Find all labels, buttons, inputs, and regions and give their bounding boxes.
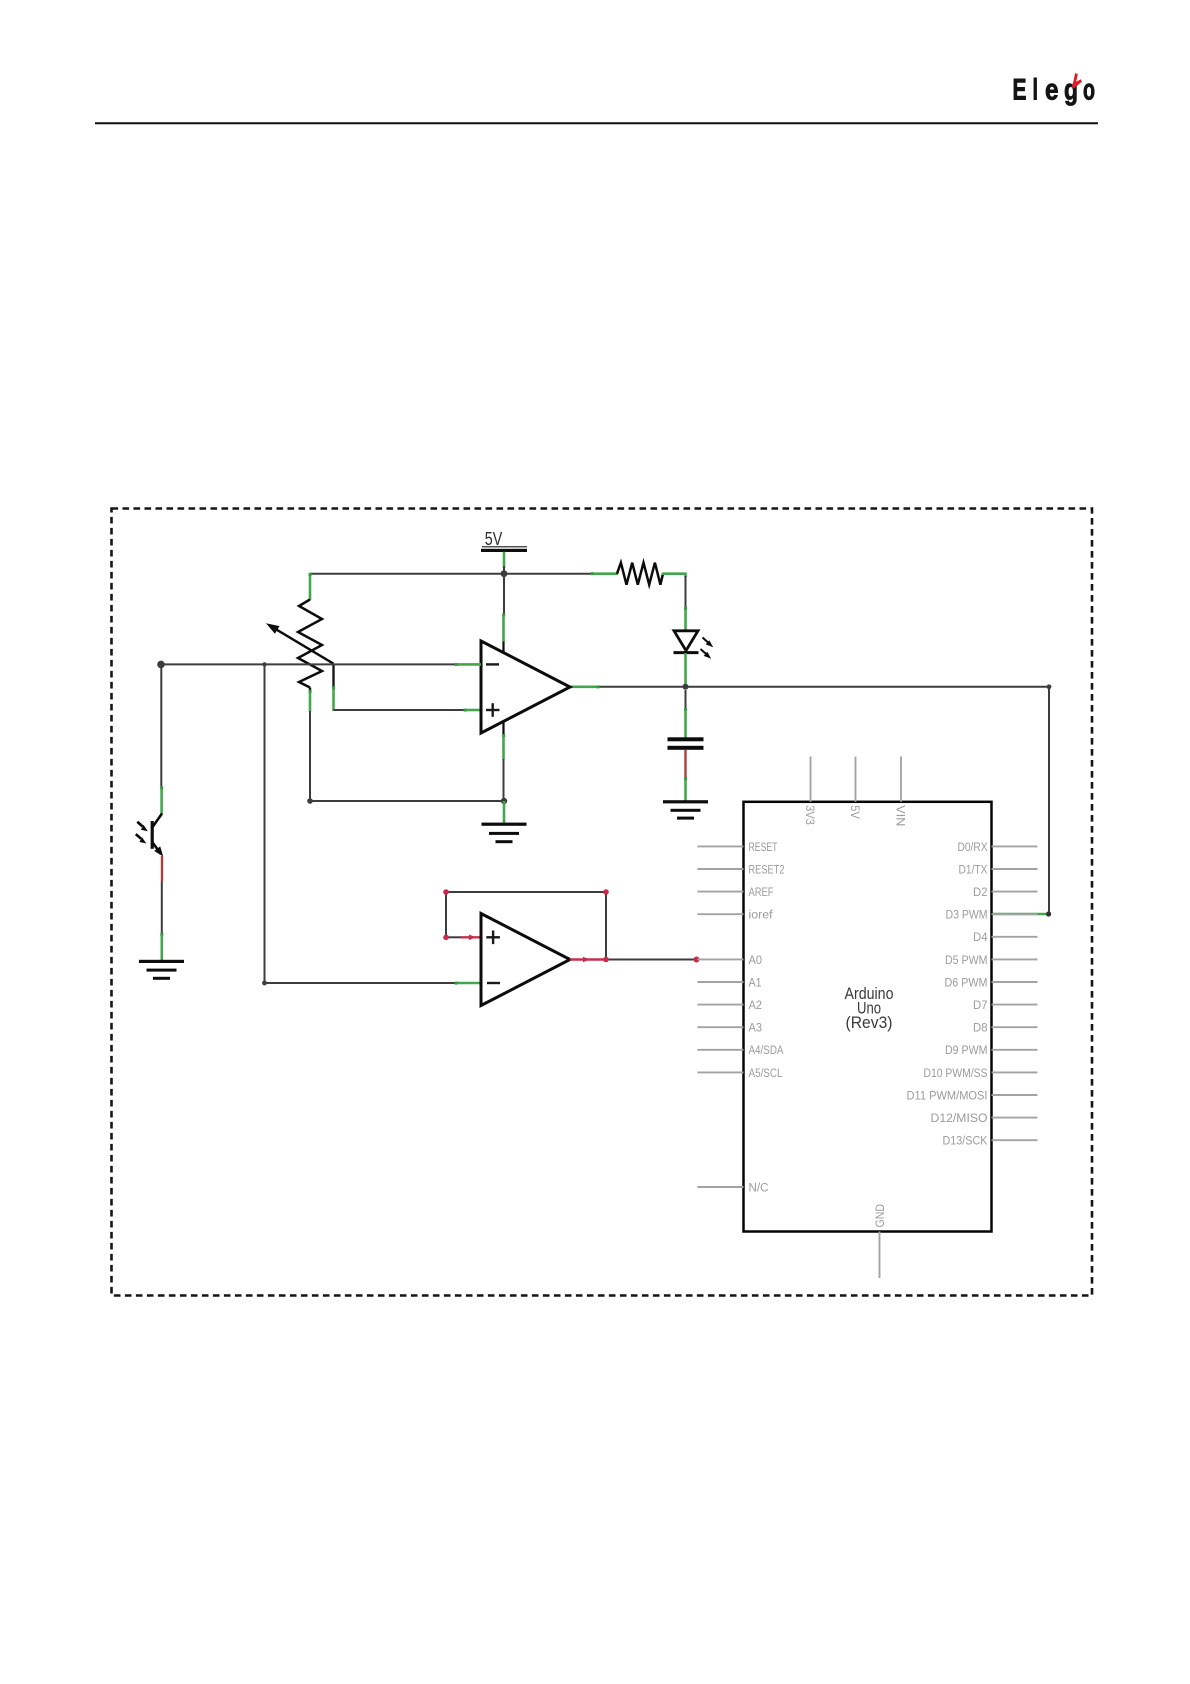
phototransistor Q1 bbox=[136, 814, 163, 857]
wire: U1 output across to corner bbox=[570, 685, 1049, 688]
wire: U1 V- pin down to node C bbox=[502, 735, 505, 802]
pin 5V bbox=[848, 757, 862, 820]
pin D1/TX bbox=[959, 862, 1038, 876]
pin D3 PWM bbox=[946, 908, 1038, 922]
svg-text:D2: D2 bbox=[973, 885, 988, 899]
svg-text:D3 PWM: D3 PWM bbox=[946, 908, 988, 922]
wire: Q1 emitter to ground (red segment) bbox=[161, 856, 164, 960]
Arduino Uno module U3 bbox=[744, 802, 992, 1232]
wire: node A to resistor R1 bbox=[504, 573, 618, 575]
pin AREF bbox=[697, 885, 773, 899]
junction dots (red) on U2 net bbox=[443, 889, 609, 940]
junction node C (ground rail under U1) bbox=[501, 798, 507, 804]
LED D1 bbox=[674, 631, 714, 659]
pin D2 bbox=[973, 885, 1038, 899]
svg-text:A4/SDA: A4/SDA bbox=[749, 1043, 785, 1057]
svg-text:D6 PWM: D6 PWM bbox=[945, 975, 988, 989]
wire: corner down to D3 PWM bbox=[1047, 684, 1052, 914]
ground under Q1 bbox=[139, 960, 184, 980]
ground under U1 bbox=[482, 823, 527, 844]
svg-text:D8: D8 bbox=[973, 1021, 988, 1035]
svg-text:D7: D7 bbox=[973, 998, 988, 1012]
wire: LED cathode to node B bbox=[684, 653, 687, 687]
svg-text:D11 PWM/MOSI: D11 PWM/MOSI bbox=[907, 1088, 988, 1102]
svg-text:A3: A3 bbox=[749, 1021, 763, 1035]
svg-text:D13/SCK: D13/SCK bbox=[943, 1134, 989, 1148]
wire: potentiometer top to node A bbox=[310, 573, 504, 575]
svg-text:GND: GND bbox=[873, 1204, 887, 1228]
power symbol 5V bbox=[481, 529, 527, 552]
pin D9 PWM bbox=[945, 1043, 1038, 1057]
svg-text:RESET: RESET bbox=[749, 840, 778, 854]
svg-text:D10 PWM/SS: D10 PWM/SS bbox=[924, 1066, 988, 1080]
pin RESET2 bbox=[697, 862, 784, 876]
svg-text:A2: A2 bbox=[749, 998, 763, 1012]
capacitor C1 bbox=[668, 737, 704, 750]
svg-text:RESET2: RESET2 bbox=[749, 862, 785, 876]
svg-text:l: l bbox=[1033, 74, 1039, 107]
potentiometer R2 bbox=[266, 575, 334, 693]
junction node A (5V rail) bbox=[501, 570, 508, 577]
pin VIN bbox=[894, 757, 908, 827]
svg-text:D4: D4 bbox=[973, 930, 988, 944]
wire: D3 PWM stub (green) bbox=[992, 911, 1051, 916]
pin D13/SCK bbox=[943, 1134, 1038, 1148]
ground under C1 bbox=[663, 800, 708, 819]
resistor R1 bbox=[617, 563, 663, 585]
svg-text:5V: 5V bbox=[848, 805, 862, 819]
wire: U2 feedback loop bbox=[446, 892, 606, 960]
svg-text:D9 PWM: D9 PWM bbox=[945, 1043, 988, 1057]
svg-text:ioref: ioref bbox=[749, 908, 774, 922]
pin A2 bbox=[697, 998, 762, 1012]
svg-text:A0: A0 bbox=[749, 953, 763, 967]
svg-text:5V: 5V bbox=[485, 529, 503, 549]
pin RESET bbox=[697, 840, 777, 854]
pin 3V3 bbox=[803, 757, 817, 825]
svg-text:D1/TX: D1/TX bbox=[959, 862, 988, 876]
svg-text:D0/RX: D0/RX bbox=[958, 840, 988, 854]
svg-text:(Rev3): (Rev3) bbox=[846, 1014, 893, 1032]
svg-text:o: o bbox=[1083, 74, 1095, 107]
pin GND bbox=[873, 1204, 887, 1278]
pin N/C bbox=[697, 1180, 768, 1194]
pin D12/MISO bbox=[931, 1111, 1038, 1125]
pin A0 bbox=[697, 953, 762, 967]
pin D6 PWM bbox=[945, 975, 1038, 989]
pin A4/SDA bbox=[697, 1043, 784, 1057]
pin D0/RX bbox=[958, 840, 1038, 854]
wire: 5V node down to U1 V+ pin bbox=[503, 577, 506, 642]
svg-text:A5/SCL: A5/SCL bbox=[749, 1066, 783, 1080]
pin D8 bbox=[973, 1021, 1038, 1035]
wire: U2 output to A0 bbox=[570, 957, 700, 963]
wire: R2 wiper to U1 + input bbox=[334, 664, 482, 711]
pin A1 bbox=[697, 975, 761, 989]
pin A5/SCL bbox=[697, 1066, 782, 1080]
svg-text:A1: A1 bbox=[749, 975, 762, 989]
wire: node D to U1 - input bbox=[161, 662, 481, 666]
wire endpoint nubs (green) bbox=[160, 572, 687, 984]
wire: node B to capacitor C1 bbox=[685, 690, 687, 738]
svg-text:3V3: 3V3 bbox=[803, 805, 817, 825]
svg-text:E: E bbox=[1013, 74, 1027, 107]
pin D5 PWM bbox=[945, 953, 1038, 967]
op-amp U2 bbox=[481, 914, 570, 1006]
pin D7 bbox=[973, 998, 1038, 1012]
pin D10 PWM/SS bbox=[924, 1066, 1038, 1080]
wire: node D down to phototransistor Q1 bbox=[160, 664, 162, 814]
pin D4 bbox=[973, 930, 1038, 944]
junction node B (output net / LED / C1) bbox=[683, 684, 689, 690]
pin ioref bbox=[697, 908, 773, 922]
wire: R2 bottom down and across to node C bbox=[307, 691, 504, 804]
junction node D (divider / photo branch) bbox=[157, 661, 165, 669]
svg-text:e: e bbox=[1045, 74, 1059, 107]
wire: R1 to LED anode bbox=[662, 573, 687, 632]
wire: node C to ground bbox=[503, 801, 506, 823]
svg-text:AREF: AREF bbox=[749, 885, 774, 899]
pin A3 bbox=[697, 1021, 762, 1035]
wire: C1 to ground (red segment) bbox=[684, 750, 686, 801]
header rule bbox=[95, 122, 1098, 124]
wire: 5V symbol to node A bbox=[503, 552, 506, 574]
pin D11 PWM/MOSI bbox=[907, 1088, 1038, 1102]
svg-text:D5 PWM: D5 PWM bbox=[945, 953, 988, 967]
svg-text:VIN: VIN bbox=[894, 805, 908, 826]
svg-text:N/C: N/C bbox=[749, 1180, 769, 1194]
wire: node D branch down to U2 - input bbox=[262, 664, 481, 985]
svg-text:D12/MISO: D12/MISO bbox=[931, 1111, 988, 1125]
op-amp U1 bbox=[481, 641, 570, 735]
Elegoo logo bbox=[1013, 73, 1096, 106]
